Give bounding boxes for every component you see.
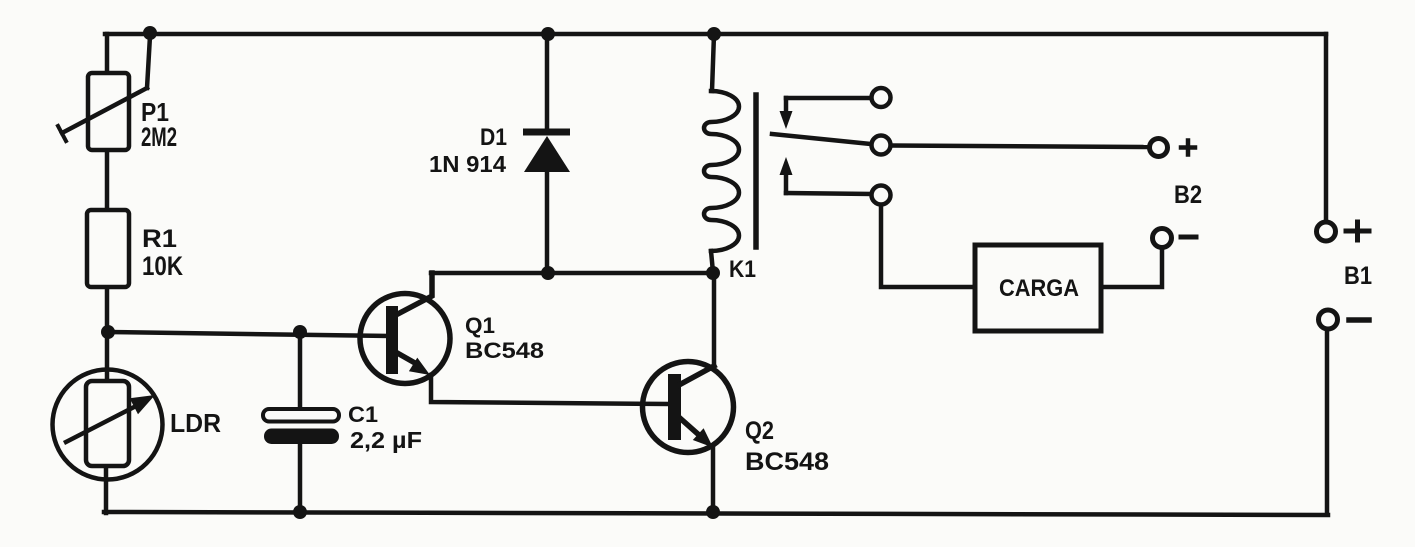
LDR body rectangle: [86, 381, 129, 466]
wire K1 to Q2 collector: [712, 273, 717, 366]
wire Q1 emitter to Q2 base: [431, 375, 668, 404]
node Q2 emitter ground junction: [706, 505, 720, 519]
wire relay NO contact: [786, 193, 871, 194]
label B1 plus sign: [1346, 229, 1369, 234]
relay NO contact arrow: [784, 173, 789, 193]
diode D1 cathode bar: [523, 129, 570, 136]
transistor Q2 collector lead: [679, 366, 714, 385]
wire relay NC contact: [786, 96, 871, 101]
wire bottom ground rail: [104, 512, 1328, 515]
node base junction (R1/LDR/base wire): [101, 325, 115, 339]
wire left branch top (rail to P1): [105, 34, 110, 74]
transistor Q1 circle: [360, 294, 450, 384]
svg-text:BC548: BC548: [465, 338, 544, 363]
label B2 plus sign: [1181, 145, 1195, 150]
wire relay coil bottom lead: [711, 251, 713, 272]
node D1 collector junction: [541, 266, 555, 280]
load box CARGA: [975, 245, 1101, 331]
relay NO terminal circle: [872, 186, 891, 205]
svg-text:CARGA: CARGA: [999, 275, 1079, 302]
node K1 top rail junction: [707, 27, 721, 41]
transistor Q2 base bar: [668, 374, 681, 440]
relay coil K1: [704, 91, 739, 251]
wire Q1 collector rail to K1: [431, 271, 714, 276]
transistor Q1 base bar: [386, 306, 398, 374]
svg-text:R1: R1: [142, 225, 177, 253]
wire D1 top lead: [545, 34, 550, 130]
LDR circle: [53, 370, 163, 480]
transistor Q1 collector lead: [392, 273, 432, 317]
relay NC terminal circle: [872, 88, 891, 107]
transistor Q2 circle: [643, 362, 734, 453]
wire P1 to R1: [105, 149, 110, 211]
wire D1 bottom lead: [545, 172, 550, 274]
capacitor C1 bottom plate: [264, 429, 339, 445]
relay K1 core bar: [753, 95, 759, 247]
svg-text:2M2: 2M2: [141, 122, 177, 152]
terminal B1- circle: [1319, 310, 1338, 329]
svg-text:B1: B1: [1344, 262, 1372, 290]
wire C1 top lead: [298, 332, 303, 409]
wire right edge top (B1+ feed): [1324, 34, 1329, 221]
svg-text:LDR: LDR: [170, 408, 221, 438]
svg-text:Q1: Q1: [465, 313, 495, 338]
svg-text:2,2 µF: 2,2 µF: [350, 427, 422, 453]
relay armature lever: [772, 134, 871, 144]
wire base line to Q1: [108, 332, 390, 336]
wire C1 bottom lead: [298, 444, 303, 513]
svg-text:C1: C1: [348, 402, 378, 427]
wire top supply rail: [105, 32, 1326, 37]
svg-text:B2: B2: [1174, 181, 1202, 209]
transistor Q2 emitter lead: [681, 419, 699, 435]
label B2 minus sign: [1181, 235, 1196, 240]
svg-text:1N 914: 1N 914: [429, 151, 506, 177]
node C1 ground junction: [293, 505, 307, 519]
wire P1 wiper to top junction: [147, 36, 150, 88]
resistor R1 body: [87, 210, 129, 287]
transistor Q2 emitter arrow head: [693, 428, 713, 447]
potentiometer P1 wiper arm: [62, 88, 147, 133]
diode D1 triangle: [524, 136, 570, 172]
relay NC contact arrow: [784, 98, 789, 113]
wire CARGA to B2-: [1101, 248, 1162, 287]
wire R1 to LDR and bottom rail: [105, 286, 110, 380]
potentiometer P1 wiper end tick: [58, 126, 66, 141]
node D1 top rail junction: [541, 27, 555, 41]
transistor Q1 emitter lead: [392, 350, 415, 363]
svg-text:Q2: Q2: [745, 417, 774, 445]
wire NO contact to CARGA: [881, 205, 975, 287]
wire right edge bottom (B1- to rail): [1325, 330, 1330, 514]
terminal B1+ circle: [1317, 222, 1336, 241]
transistor Q1 emitter arrow head: [409, 358, 430, 375]
capacitor C1 top plate: [263, 409, 339, 422]
wire common contact to B2+: [891, 146, 1149, 148]
wire Q2 emitter to ground rail: [711, 447, 716, 513]
svg-text:BC548: BC548: [745, 448, 829, 476]
svg-text:D1: D1: [480, 124, 507, 151]
potentiometer P1 body: [88, 73, 129, 150]
node K1 junction: [706, 266, 720, 280]
terminal B2- circle: [1153, 229, 1172, 248]
svg-text:10K: 10K: [142, 251, 183, 281]
svg-text:K1: K1: [729, 256, 756, 283]
label B1 minus sign: [1349, 317, 1369, 323]
node top-left junction: [143, 26, 157, 40]
node C1 top junction: [293, 325, 307, 339]
LDR arrow shaft: [66, 406, 136, 442]
terminal B2+ circle: [1150, 139, 1168, 157]
LDR arrow head: [130, 395, 155, 414]
relay common terminal circle: [872, 136, 891, 155]
wire relay coil top lead: [712, 34, 714, 91]
